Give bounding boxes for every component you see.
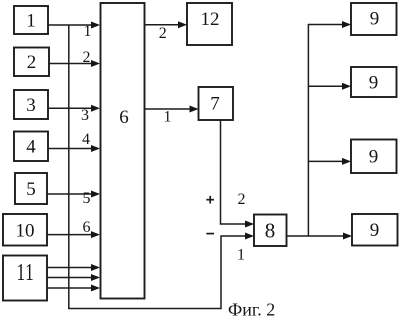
svg-text:1: 1 (84, 23, 92, 40)
svg-text:Фиг. 2: Фиг. 2 (228, 300, 275, 320)
svg-text:4: 4 (82, 131, 90, 148)
svg-text:6: 6 (119, 107, 129, 128)
svg-text:1: 1 (26, 11, 36, 32)
svg-text:9: 9 (370, 220, 380, 241)
svg-text:1: 1 (237, 247, 245, 264)
svg-text:9: 9 (369, 147, 379, 168)
svg-text:3: 3 (26, 95, 36, 116)
svg-text:2: 2 (27, 52, 37, 73)
svg-text:7: 7 (210, 94, 220, 115)
svg-text:6: 6 (83, 219, 91, 236)
svg-text:12: 12 (201, 9, 220, 30)
svg-text:5: 5 (26, 179, 36, 200)
svg-text:2: 2 (159, 25, 167, 42)
svg-text:9: 9 (369, 73, 379, 94)
svg-text:4: 4 (26, 137, 36, 158)
svg-text:1: 1 (164, 109, 172, 126)
svg-text:2: 2 (83, 49, 91, 66)
svg-text:5: 5 (83, 190, 91, 207)
svg-text:3: 3 (81, 107, 89, 124)
svg-text:2: 2 (238, 191, 246, 208)
svg-text:10: 10 (16, 221, 35, 242)
svg-text:9: 9 (370, 9, 380, 30)
svg-text:11: 11 (16, 258, 34, 286)
svg-text:8: 8 (265, 219, 276, 243)
